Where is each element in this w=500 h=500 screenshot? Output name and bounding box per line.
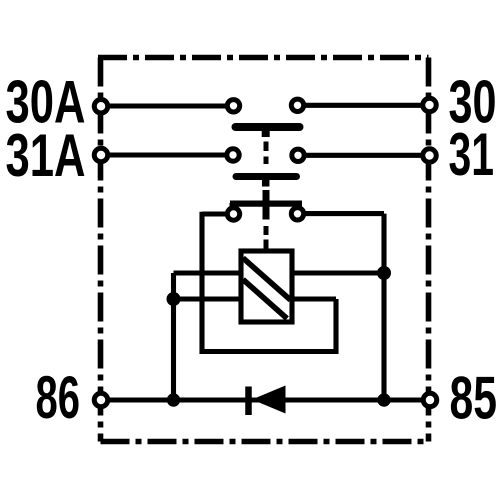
wire: left vertical from line A down to 86-85 wire [171, 273, 176, 400]
armature bridge left nub [230, 203, 236, 210]
junction dot: right vertical on bottom bus [377, 393, 390, 406]
terminal 86 [94, 393, 108, 407]
relay coil K1 (rectangle with diagonal band) [241, 251, 292, 322]
terminal 31 [423, 149, 437, 163]
terminal 30A [94, 100, 108, 114]
wire: terminal 86 to terminal 85 (bottom bus) [101, 397, 430, 402]
wire: right vertical from row 3 down to 86-85 wire [381, 214, 386, 400]
wire: coil lower feed line B (behind coil) [174, 296, 337, 301]
svg-text:86: 86 [36, 364, 81, 431]
wire: coil upper feed line A (behind coil) [174, 270, 385, 275]
wire: terminal 31A to fixed contact (row 2 left) [101, 152, 232, 157]
diode V1 triangle (anode, pointing left) [252, 386, 286, 414]
svg-text:85: 85 [450, 365, 498, 432]
diode V1 cathode bar [245, 387, 252, 416]
armature bridge right nub [296, 203, 302, 210]
junction dot: line B on left vertical [167, 292, 181, 306]
armature bridge bar (row 3) [230, 200, 302, 206]
armature contact circle row 3 left [227, 208, 239, 220]
relay case outline right edge (dash-dot border) [426, 58, 432, 442]
wire: left drop from armature down, along box bottom, up to coil right feed [202, 212, 336, 352]
svg-text:31: 31 [449, 121, 495, 188]
wire: terminal 30A to fixed contact (row 1 left) [101, 103, 232, 108]
fixed contact circle row 1 left [227, 100, 239, 112]
contact bridge bar 1 (movable contact 30A-30) [236, 123, 300, 131]
coil diagonal stripe 1 [243, 258, 291, 300]
terminal 31A [94, 148, 108, 162]
actuator dashed link (lower, into coil top) [264, 226, 269, 251]
junction dot: left vertical on bottom bus [167, 393, 180, 406]
junction dot: line A on right vertical [377, 266, 391, 280]
relay case outline top edge (dash-dot border) [98, 55, 429, 61]
armature pivot tick [263, 190, 270, 220]
wire: fixed contact to terminal 31 (row 2 right) [300, 153, 430, 158]
actuator tick under bar 2 [262, 179, 270, 187]
actuator dashed link (upper) [264, 142, 269, 165]
fixed contact circle row 2 right [292, 149, 304, 161]
fixed contact circle row 1 right [291, 99, 303, 111]
actuator tick under bar 1 [262, 129, 270, 137]
wire: row 3 left contact to left drop [202, 211, 232, 216]
relay case outline bottom edge (dash-dot border) [101, 439, 429, 445]
wire: fixed contact to terminal 30 (row 1 right) [299, 103, 430, 108]
fixed contact circle row 2 left [227, 149, 239, 161]
coil diagonal stripe 2 [243, 280, 287, 319]
relay case outline left edge (dash-dot border) [98, 58, 104, 442]
terminal 30 [423, 98, 437, 112]
svg-text:31A: 31A [6, 122, 86, 189]
contact bridge bar 2 (movable contact 31A-31) [236, 173, 297, 180]
terminal 85 [423, 393, 437, 407]
wire: row 3 right contact to right drop [299, 211, 384, 216]
armature contact circle row 3 right [291, 208, 303, 220]
